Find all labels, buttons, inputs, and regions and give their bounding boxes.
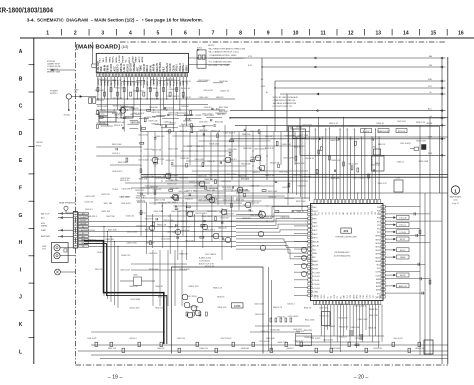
capacitor C605 1/50: [202, 133, 204, 135]
svg-text:R620 820: R620 820: [217, 114, 225, 116]
svg-text:R606 2.2K: R606 2.2K: [121, 255, 131, 257]
wire horizontal below IC1: [255, 325, 310, 327]
wire from IC1 top pin: [339, 129, 341, 199]
svg-text:• VOLTAGES ARE DC WITH RESPECT: • VOLTAGES ARE DC WITH RESPECT: [208, 57, 246, 60]
svg-text:C605 1/50: C605 1/50: [319, 307, 328, 309]
wire from IC1 left pin: [294, 210, 308, 212]
svg-text:C607 100/6.3: C607 100/6.3: [354, 306, 365, 308]
resistor R612 100K bottom row: [206, 312, 208, 316]
IC1 right pin 4: [381, 216, 385, 219]
stepped wire into IC1: [236, 213, 308, 222]
resistor R616 1.5K: [202, 163, 204, 167]
svg-text:P13: P13: [377, 232, 380, 234]
svg-text:SEG3: SEG3: [375, 243, 380, 245]
svg-text:LCD-D3: LCD-D3: [313, 288, 320, 290]
svg-text:R601 10K: R601 10K: [218, 227, 227, 229]
dashed box remote sensor: [296, 334, 312, 346]
wire vertical in analog block: [210, 132, 212, 181]
wire horizontal in analog block: [181, 150, 233, 152]
svg-text:R617 680: R617 680: [207, 190, 215, 192]
svg-text:C611 0.0022: C611 0.0022: [310, 338, 320, 340]
wire from IC2 pin down: [113, 77, 115, 88]
svg-text:TUNE: TUNE: [141, 65, 143, 72]
svg-text:R612 100K: R612 100K: [416, 141, 426, 143]
svg-text:RF-IN: RF-IN: [150, 65, 152, 71]
svg-text:C: C: [19, 104, 23, 110]
resistor R610 1K bottom row: [193, 312, 195, 316]
svg-text:KEY2: KEY2: [313, 234, 318, 236]
junction dot: [182, 200, 183, 201]
junction dot: [168, 215, 169, 216]
connector arrow for net W2: [441, 66, 443, 68]
junction dot bus crossing: [221, 236, 222, 237]
wire vertical through bus region: [177, 208, 179, 260]
resistor R606 2.2K on IC2 pin line: [130, 92, 132, 96]
svg-text:IC702: IC702: [297, 127, 302, 129]
svg-text:R610 1K: R610 1K: [181, 106, 189, 108]
wire from IC1 right pin: [385, 242, 430, 244]
wire riser: [274, 81, 276, 132]
circled numeral 1 reference: [451, 186, 459, 194]
grid row tick: [29, 146, 35, 148]
IC2 pin 25 box: [175, 73, 177, 77]
wire vertical in analog block: [266, 125, 268, 180]
svg-text:R618 120K: R618 120K: [419, 161, 429, 163]
wire vertical in analog block: [259, 132, 261, 166]
bus wire 1 from CN501: [89, 221, 237, 223]
wire from circled tag: [236, 214, 259, 216]
IC1 top pin 17: [371, 199, 374, 203]
wire link: [177, 112, 188, 114]
transistor Q617: [255, 155, 261, 161]
transistor Q624: [225, 157, 231, 163]
wire from IC1 right pin: [385, 238, 395, 240]
svg-text:C604 47/6.3: C604 47/6.3: [86, 216, 96, 218]
capacitor C608 4.7/50 bus region: [175, 224, 177, 226]
IC2 pin 14 box: [139, 73, 141, 77]
IC1 bottom pin 16: [362, 301, 364, 305]
svg-text:FM-IN: FM-IN: [108, 65, 110, 72]
connector arrow for net W8: [441, 124, 443, 126]
svg-text:C606 0.01: C606 0.01: [129, 286, 138, 288]
svg-text:C601 0.022: C601 0.022: [97, 79, 107, 81]
arrow terminal net LCD-CE: [394, 217, 396, 219]
svg-text:NOTE:: NOTE:: [208, 45, 215, 47]
IC1 left pin 4: [308, 217, 312, 220]
svg-text:3: 3: [101, 31, 104, 37]
svg-text:R610 1K: R610 1K: [265, 136, 273, 138]
svg-text:C604 47/6.3: C604 47/6.3: [204, 230, 214, 232]
svg-text:R643 4.7K: R643 4.7K: [120, 180, 130, 182]
rail bus mid c: [295, 136, 448, 138]
svg-text:R607 330: R607 330: [185, 241, 193, 243]
junction dot on rail: [371, 136, 372, 137]
svg-text:R608 560: R608 560: [330, 140, 338, 142]
capacitor C602 10/16: [154, 137, 156, 139]
svg-text:R642 10K: R642 10K: [118, 162, 127, 164]
CN501 pin 11 tick: [73, 232, 77, 234]
svg-text:(2/2): (2/2): [454, 200, 458, 202]
resistor R605 47K array: [290, 318, 292, 322]
svg-text:C605 1/50: C605 1/50: [293, 329, 302, 331]
svg-text:C614 2.2/50: C614 2.2/50: [129, 308, 139, 310]
wire from IC1 bottom pin: [330, 304, 332, 348]
svg-text:R601 10K: R601 10K: [102, 211, 111, 213]
capacitor C602 10/16 bottom band: [110, 342, 113, 346]
junction dot crystal wire: [197, 57, 198, 58]
svg-text:ACC: ACC: [428, 107, 433, 110]
wire net W8 to right edge: [235, 124, 446, 126]
transistor Q652: [175, 229, 180, 234]
svg-text:C611 0.0022: C611 0.0022: [97, 106, 108, 108]
svg-text:R606 2.2K: R606 2.2K: [209, 199, 219, 201]
grid column tick: [364, 29, 366, 36]
svg-text:C608 4.7/50: C608 4.7/50: [188, 286, 198, 288]
resistor R605 47K: [169, 189, 173, 191]
svg-text:R611 22K: R611 22K: [241, 179, 250, 181]
resistor R609 10K above IC1: [355, 141, 357, 145]
svg-text:KEY0: KEY0: [313, 226, 318, 228]
IC1 reference label box: [341, 228, 352, 233]
svg-text:R617 680: R617 680: [145, 229, 153, 231]
svg-text:R610 1K: R610 1K: [217, 296, 225, 298]
wire horizontal in analog block: [199, 140, 271, 142]
wire vertical comb left: [296, 137, 298, 195]
resistor R614 3.3K: [140, 211, 142, 215]
wire vertical through bus region: [169, 214, 171, 254]
svg-text:R602 4.7K: R602 4.7K: [114, 125, 124, 127]
svg-text:C611 0.0022: C611 0.0022: [284, 135, 295, 137]
transistor Q653: [202, 224, 207, 229]
IC1 top pin 3: [321, 199, 324, 203]
svg-text:R610 1K: R610 1K: [287, 348, 295, 350]
IC1 right pin 18: [381, 267, 385, 270]
arrow terminal: [61, 217, 63, 219]
capacitor C614 2.2/50: [171, 162, 173, 164]
wire vertical in analog block: [147, 132, 149, 196]
wire from IC1 bottom pin: [327, 304, 329, 330]
capacitor C610 220/4: [203, 220, 205, 222]
wire link under IC2: [127, 123, 139, 125]
svg-text:C604 47/6.3: C604 47/6.3: [121, 188, 131, 190]
wire horizontal mid-bottom: [131, 263, 187, 265]
rail bus mid a: [141, 131, 310, 133]
IC1 right pin 15: [381, 256, 385, 259]
svg-text:DO1: DO1: [318, 295, 320, 299]
svg-text:C603 0.1: C603 0.1: [85, 209, 93, 211]
svg-text:5: 5: [157, 31, 160, 37]
IC2 pin 19 box: [156, 73, 158, 77]
wire link under IC2: [206, 117, 222, 119]
junction dot on rail: [315, 128, 316, 129]
svg-text:R616 1.5K: R616 1.5K: [183, 146, 193, 148]
svg-text:P11: P11: [377, 225, 380, 227]
svg-text:R614 3.3K: R614 3.3K: [152, 149, 162, 151]
capacitor C607 100/6.3: [155, 218, 157, 220]
transistor Q646: [260, 245, 265, 250]
wire from IC1 top pin: [378, 137, 380, 199]
junction dot on rail: [361, 136, 362, 137]
IC1 bottom pin 18: [369, 301, 371, 305]
CN501 net label AMP box: [78, 238, 88, 240]
wire from IC1 right pin: [385, 231, 395, 233]
svg-text:R608 560: R608 560: [219, 81, 227, 83]
svg-text:R606 2.2K: R606 2.2K: [339, 304, 349, 306]
capacitor C604 47/6.3: [275, 180, 277, 182]
svg-text:A-4819-153-A: A-4819-153-A: [199, 257, 212, 260]
svg-text:C605 1/50: C605 1/50: [397, 121, 406, 123]
resistor R617 680: [186, 206, 190, 208]
transistor Q611: [165, 173, 171, 179]
svg-text:7: 7: [212, 31, 215, 37]
svg-text:ACC: ACC: [216, 107, 221, 110]
wire from IC1 bottom pin: [346, 304, 348, 330]
wire link: [173, 79, 180, 81]
wire link: [130, 127, 139, 129]
wire vertical through bus region: [230, 196, 232, 248]
svg-text:R-OUT: R-OUT: [80, 220, 87, 222]
svg-text:R606 2.2K: R606 2.2K: [211, 131, 221, 133]
CN501 pin 1 tick: [73, 212, 77, 214]
wire link: [117, 117, 130, 119]
capacitor C608 4.7/50 under IC2: [123, 117, 125, 119]
junction dot on rail: [357, 192, 358, 193]
IC1 left pin 22: [308, 286, 312, 289]
resistor R644 left gap: [126, 158, 128, 162]
svg-text:VCC: VCC: [428, 86, 433, 88]
IC1 left pin 20: [308, 279, 312, 282]
wire IC2 right to notes area: [189, 64, 231, 66]
connector arrow for net W10: [441, 154, 443, 156]
wire from IC1 left pin: [294, 287, 308, 289]
IC1 right pin 17: [381, 263, 385, 266]
junction dot on rail: [364, 128, 365, 129]
filter block FL601: [121, 107, 133, 118]
IC2 pin 10 box: [126, 73, 128, 77]
junction dot on rail: [343, 117, 344, 118]
capacitor C602 10/16 under IC2: [119, 108, 121, 110]
svg-text:P.ANT: P.ANT: [41, 229, 47, 232]
boxed rail label B1: [361, 129, 372, 133]
svg-text:R641 100K: R641 100K: [112, 144, 122, 146]
resistor R602 4.7K array: [275, 318, 277, 322]
resistor R601 10K on IC2 pin line: [97, 88, 99, 92]
svg-text:C901: C901: [396, 178, 401, 180]
svg-text:R620 820: R620 820: [151, 98, 159, 100]
svg-text:C601 0.022: C601 0.022: [168, 149, 178, 151]
component on right wire: [419, 230, 421, 234]
resistor R613 470 tiny: [288, 183, 290, 187]
svg-text:R606 2.2K: R606 2.2K: [181, 124, 191, 126]
boxed net label KEY-1: [397, 237, 410, 241]
svg-text:R602 4.7K: R602 4.7K: [209, 174, 219, 176]
double bus line upper: [141, 174, 448, 176]
svg-text:C603 0.1: C603 0.1: [168, 226, 176, 228]
resistor R601 10K under IC2: [97, 111, 99, 115]
wire bus under IC2 third: [96, 104, 208, 106]
svg-text:R619 5.6K: R619 5.6K: [239, 190, 249, 192]
svg-text:C614 2.2/50: C614 2.2/50: [155, 199, 165, 201]
svg-text:AMP-ON: AMP-ON: [399, 285, 407, 288]
transistor Q614: [209, 197, 215, 203]
wire from IC1 right pin: [385, 285, 395, 287]
resistor R609 10K under IC2: [144, 118, 146, 122]
transistor Q631: [184, 302, 190, 308]
svg-text:C603 0.1: C603 0.1: [129, 338, 136, 340]
junction dot: [196, 150, 197, 151]
junction dot on rail: [336, 136, 337, 137]
junction dot: [189, 150, 190, 151]
svg-text:SPDL: SPDL: [109, 56, 111, 62]
IC1 bottom pin 9: [340, 301, 342, 305]
junction dot: [273, 180, 274, 181]
collector wire below IC1 b: [296, 341, 380, 343]
svg-text:C605 1/50: C605 1/50: [133, 98, 142, 100]
svg-text:C601 0.022: C601 0.022: [121, 203, 131, 205]
IC1 right pin 22: [381, 281, 385, 284]
wire from IC1 bottom pin: [333, 304, 335, 336]
svg-text:C603 0.1: C603 0.1: [97, 252, 105, 254]
svg-text:P00: P00: [377, 207, 380, 209]
wire from IC2 pin down: [153, 77, 155, 84]
svg-text:R613 470: R613 470: [220, 218, 228, 220]
wire from IC2 pin down: [166, 77, 168, 99]
grid column tick: [281, 29, 283, 36]
capacitor C605 1/50 above IC1: [337, 138, 339, 140]
resistor R618 120K tiny: [229, 152, 231, 156]
black component D901: [422, 145, 427, 150]
svg-text:R601 10K: R601 10K: [183, 121, 192, 123]
svg-text:P12: P12: [377, 229, 380, 231]
right vertical wire A: [441, 58, 443, 364]
svg-text:R602 4.7K: R602 4.7K: [329, 123, 339, 125]
junction dot: [161, 210, 162, 211]
svg-text:REAR SPEAKER(L): REAR SPEAKER(L): [59, 202, 76, 205]
svg-text:R602 4.7K: R602 4.7K: [182, 97, 192, 99]
svg-text:R610 1K: R610 1K: [269, 197, 277, 199]
arrow terminal net AMP-ON: [394, 285, 396, 287]
wire from IC1 top pin: [350, 137, 352, 199]
svg-text:MIX-O: MIX-O: [147, 65, 149, 72]
IC1 bottom pin 20: [375, 301, 377, 305]
svg-text:K4: K4: [329, 212, 331, 214]
grid column tick: [419, 29, 421, 36]
connector arrow for net W5: [441, 93, 443, 95]
svg-text:R606 2.2K: R606 2.2K: [213, 288, 223, 290]
svg-text:FILT: FILT: [164, 66, 166, 71]
svg-text:C608 4.7/50: C608 4.7/50: [163, 220, 173, 222]
svg-text:C602 10/16: C602 10/16: [189, 306, 199, 308]
IC1 left pin 3: [308, 213, 312, 216]
svg-text:C607 100/6.3: C607 100/6.3: [205, 254, 216, 256]
IC2 pin 2 box: [100, 73, 102, 77]
svg-text:ACC: ACC: [41, 217, 46, 220]
IC1 bottom pin 19: [372, 301, 374, 305]
IC1 right pin 10: [381, 238, 385, 241]
wire link under IC2: [152, 115, 165, 117]
resistor R608 560: [215, 180, 217, 184]
resistor R608 560 on IC1 top line: [368, 174, 370, 178]
capacitor C613 0.33: [248, 209, 250, 211]
svg-text:C607 100/6.3: C607 100/6.3: [167, 96, 178, 98]
svg-text:R609 10K: R609 10K: [145, 218, 154, 220]
wire from CN501 to left: [58, 217, 73, 219]
svg-text:C609 0.047: C609 0.047: [350, 327, 360, 329]
svg-text:B: B: [19, 76, 23, 82]
IC2 pin 5 box: [110, 73, 112, 77]
IC1 left pin 15: [308, 259, 312, 262]
wire from terminal to CN501: [65, 210, 67, 213]
junction dot on rail: [350, 136, 351, 137]
resistor R603 100 tiny: [169, 129, 171, 133]
wire vertical in analog block: [140, 125, 142, 236]
wire horizontal in analog block: [187, 145, 304, 147]
svg-text:C601 0.022: C601 0.022: [226, 174, 236, 176]
capacitor C611 0.0022 bottom band: [270, 348, 273, 352]
electrolytic C845 dashed box: [134, 277, 142, 286]
bottom rail 1: [91, 344, 448, 346]
svg-text:R615 6.8K: R615 6.8K: [108, 230, 118, 232]
svg-text:SEG6: SEG6: [375, 254, 380, 256]
resistor R611 22K on IC2 pin line: [163, 88, 165, 92]
svg-text:R616 1.5K: R616 1.5K: [371, 164, 381, 166]
wire from IC2 pin down: [176, 77, 178, 99]
svg-text:R610 1K: R610 1K: [339, 337, 347, 339]
svg-text:1: 1: [454, 188, 457, 193]
capacitor C603 0.1: [219, 161, 221, 163]
wire from IC2 pin down: [149, 77, 151, 110]
wire horizontal mid-bottom b: [131, 269, 187, 271]
IC1 bottom pin 15: [359, 301, 361, 305]
svg-text:R620 820: R620 820: [304, 330, 312, 332]
wire link: [100, 79, 116, 81]
grid column tick: [336, 29, 338, 36]
svg-text:C613 0.33: C613 0.33: [130, 108, 139, 110]
wires around C845: [120, 280, 134, 282]
wire from IC2 pin down: [179, 77, 181, 110]
resistor R609 10K tiny: [258, 130, 260, 134]
transistor Q634: [182, 294, 188, 300]
CN501 pin 15 tick: [73, 241, 77, 243]
svg-text:C606 0.01: C606 0.01: [153, 189, 162, 191]
terminal T601 circle: [66, 94, 71, 99]
svg-text:C611 0.0022: C611 0.0022: [167, 175, 178, 177]
wire link: [98, 115, 107, 117]
svg-text:R616 1.5K: R616 1.5K: [147, 117, 157, 119]
connector arrow for net W1: [441, 57, 443, 59]
arrow terminal net KEY-1: [394, 238, 396, 240]
IC1 right pin 23: [381, 285, 385, 288]
IC1 left pin 18: [308, 271, 312, 274]
wire vertical drop: [181, 250, 183, 306]
svg-text:COM0: COM0: [313, 292, 318, 294]
junction dot on rail: [375, 128, 376, 129]
IC1 right pin 6: [381, 224, 385, 227]
svg-text:AGC: AGC: [113, 66, 116, 71]
svg-text:R602 4.7K: R602 4.7K: [108, 348, 117, 350]
svg-text:C613 0.33: C613 0.33: [98, 123, 107, 125]
svg-text:IF-O: IF-O: [173, 81, 175, 86]
resistor R604 1K on IC1 top line: [318, 150, 320, 154]
svg-text:C607 100/6.3: C607 100/6.3: [224, 132, 235, 134]
svg-text:TE-I: TE-I: [103, 58, 105, 63]
wire link: [139, 117, 149, 119]
IC2 body (tuner IF IC): [96, 53, 188, 72]
main board outline bottom edge: [76, 364, 449, 366]
jack J502 (line out R): [54, 253, 60, 259]
svg-text:C609 0.047: C609 0.047: [349, 138, 359, 140]
svg-text:R618 120K: R618 120K: [113, 98, 123, 100]
